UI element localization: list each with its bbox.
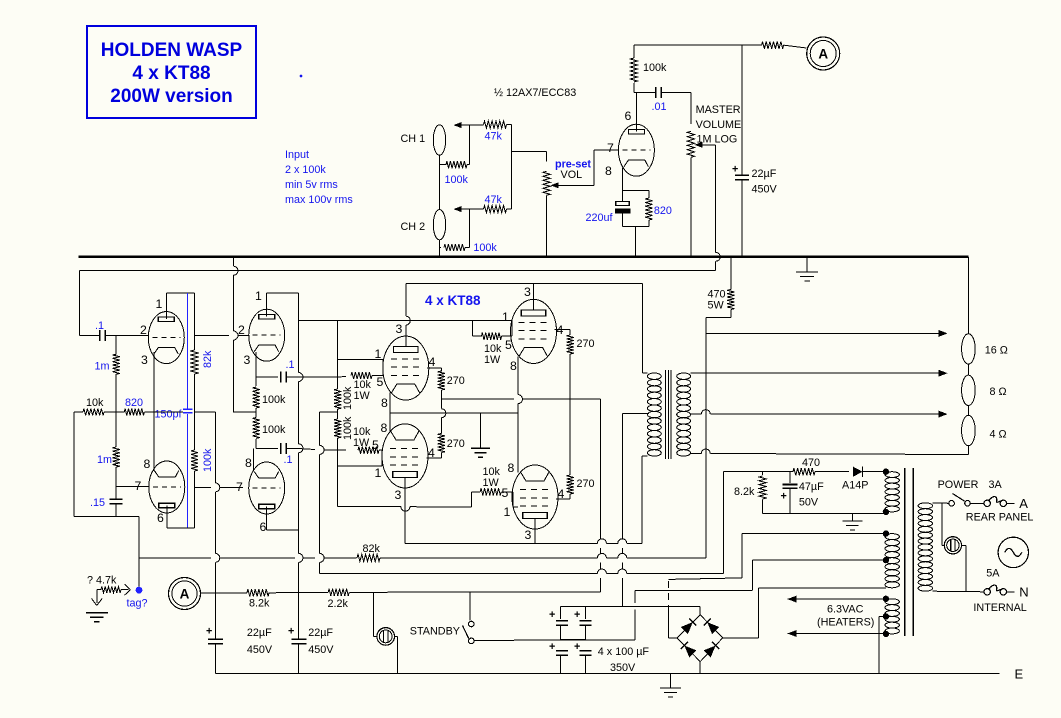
resistor 100k V3 lower bbox=[253, 412, 286, 448]
svg-text:8: 8 bbox=[381, 396, 388, 410]
svg-text:1W: 1W bbox=[354, 390, 371, 402]
wire UR cathode bbox=[518, 357, 523, 414]
wire cap1 lead bbox=[560, 606, 562, 619]
svg-text:350V: 350V bbox=[610, 662, 636, 674]
capacitor 100uF-1b bbox=[549, 641, 568, 674]
wire lamp to bottom bbox=[395, 636, 398, 673]
label 4x100uF bbox=[598, 646, 650, 674]
resistor 270 LL screen bbox=[427, 399, 465, 458]
wire sec top to 8ohm bbox=[691, 372, 944, 374]
dot HT top bbox=[883, 530, 889, 536]
master wiper arrow bbox=[695, 142, 716, 148]
svg-text:+: + bbox=[549, 609, 555, 621]
dot HT center bbox=[883, 557, 889, 563]
earth line bbox=[215, 673, 999, 675]
svg-text:3: 3 bbox=[141, 353, 148, 367]
resistor 470 bias bbox=[793, 457, 849, 475]
resistor 8.2k bias bbox=[734, 472, 766, 514]
svg-text:22µF: 22µF bbox=[247, 627, 272, 639]
ground symbol bias bbox=[842, 513, 862, 530]
wire CH1 junction riser bbox=[468, 125, 470, 165]
svg-text:+: + bbox=[549, 641, 555, 653]
wire LR g3 bbox=[513, 492, 518, 507]
wire V2a plate bbox=[166, 293, 194, 319]
svg-text:tag?: tag? bbox=[127, 598, 148, 610]
wire bridge bottom bbox=[699, 662, 701, 674]
wire 82k to 100k bbox=[194, 374, 196, 450]
PT core bbox=[905, 468, 914, 636]
wire meter to 8.2k bbox=[201, 592, 248, 594]
capacitor .15 bbox=[90, 487, 123, 517]
svg-text:3A: 3A bbox=[989, 479, 1003, 491]
open arrow right bbox=[124, 584, 131, 595]
resistor 1m upper bbox=[95, 336, 120, 413]
pin 2 label bbox=[140, 323, 147, 337]
svg-text:6.3VAC: 6.3VAC bbox=[827, 604, 864, 616]
pin 1 label bbox=[255, 289, 262, 303]
svg-text:8 Ω: 8 Ω bbox=[990, 386, 1007, 398]
pin 6 label bbox=[260, 520, 267, 534]
resistor 8.2k meter bbox=[762, 42, 807, 49]
resistor 10k 1W LR grid bbox=[471, 466, 513, 496]
svg-text:2: 2 bbox=[238, 323, 245, 337]
resistor 10k 1W UR grid bbox=[473, 333, 512, 366]
pin 4 label bbox=[428, 446, 435, 460]
wire CH2 to ground bus bbox=[439, 240, 441, 257]
svg-text:8: 8 bbox=[605, 164, 612, 178]
jack 4 ohm bbox=[962, 415, 1007, 445]
svg-text:47k: 47k bbox=[485, 194, 503, 206]
svg-text:82k: 82k bbox=[363, 543, 381, 555]
wire screen drop bbox=[599, 399, 601, 592]
capacitor 100uF-2b bbox=[574, 641, 591, 674]
svg-text:CH 2: CH 2 bbox=[401, 221, 426, 233]
ground symbol floating bbox=[86, 613, 108, 622]
svg-text:5: 5 bbox=[502, 486, 509, 500]
resistor 82k bbox=[191, 350, 214, 374]
svg-text:+: + bbox=[732, 164, 738, 176]
wire cap mid 2 bbox=[584, 625, 586, 639]
input note text bbox=[285, 149, 353, 206]
wire V2a cathode bbox=[153, 352, 155, 412]
svg-text:270: 270 bbox=[577, 478, 595, 490]
svg-text:.15: .15 bbox=[90, 497, 105, 509]
resistor 47k CH2 bbox=[469, 194, 511, 213]
wire V3a plate bbox=[267, 293, 299, 316]
wire LL g3 feed bbox=[338, 492, 472, 511]
svg-text:450V: 450V bbox=[247, 644, 273, 656]
fuse 3A bbox=[984, 497, 1014, 507]
pin 8 label bbox=[245, 456, 252, 470]
svg-text:270: 270 bbox=[577, 338, 595, 350]
jack CH2 bbox=[401, 210, 446, 240]
screen bus bbox=[441, 398, 600, 400]
triode V3a bbox=[249, 309, 285, 361]
svg-text:INTERNAL: INTERNAL bbox=[973, 602, 1026, 614]
svg-text:4 x KT88: 4 x KT88 bbox=[425, 293, 481, 308]
capacitor 22uF 450V (V1 supply) bbox=[732, 45, 778, 256]
resistor 82k feedback bbox=[357, 543, 706, 562]
svg-text:100k: 100k bbox=[262, 394, 286, 406]
resistor 100k CH2 mix bbox=[440, 242, 498, 254]
resistor 270 LR screen bbox=[556, 399, 595, 499]
svg-text:max 100v rms: max 100v rms bbox=[285, 194, 353, 206]
wire wiper drop bbox=[716, 145, 720, 271]
svg-text:820: 820 bbox=[654, 205, 672, 217]
wire bias ground line bbox=[763, 512, 886, 514]
svg-text:3: 3 bbox=[396, 322, 403, 336]
label 5A bbox=[986, 568, 1000, 580]
wire g3 upper-left bbox=[338, 360, 383, 376]
arrow 4ohm bbox=[939, 411, 948, 418]
svg-text:A: A bbox=[1019, 496, 1028, 511]
label 6.3VAC bbox=[817, 604, 874, 629]
pin 5 label bbox=[505, 338, 512, 352]
pin 8 label bbox=[510, 359, 517, 373]
wire UR g1 feed bbox=[299, 321, 512, 337]
wire lower bus to OPT bbox=[641, 456, 643, 543]
pin 5 label bbox=[372, 438, 379, 452]
wire LL cathode bbox=[389, 413, 391, 431]
svg-text:8: 8 bbox=[144, 457, 151, 471]
title box bbox=[87, 26, 256, 118]
svg-text:5W: 5W bbox=[708, 300, 725, 312]
svg-text:47k: 47k bbox=[485, 131, 503, 143]
pin 8 label bbox=[381, 396, 388, 410]
svg-text:2.2k: 2.2k bbox=[328, 598, 349, 610]
svg-text:4 Ω: 4 Ω bbox=[990, 429, 1007, 441]
svg-text:(HEATERS): (HEATERS) bbox=[817, 617, 874, 629]
cathode bus bbox=[390, 412, 518, 414]
wire CH2 junction riser bbox=[468, 209, 470, 247]
triode V1 (1/2 12AX7) bbox=[618, 124, 654, 176]
wire UL plate bbox=[406, 283, 411, 346]
resistor 270 UR screen bbox=[555, 330, 595, 400]
wire g3 lower-left bbox=[338, 450, 382, 466]
capacitor .1 input bbox=[79, 320, 148, 341]
signal line master to input bbox=[79, 271, 715, 336]
resistor 100k grid leak lower bbox=[334, 416, 354, 440]
open arrow down bbox=[92, 590, 103, 606]
wire LR plate bbox=[534, 519, 536, 544]
stray dot bbox=[300, 75, 303, 78]
label A terminal bbox=[1019, 496, 1028, 511]
pin 3 label bbox=[524, 285, 531, 299]
plate bus upper bbox=[406, 282, 643, 284]
arrow to CH2 tip bbox=[454, 206, 470, 212]
wire B+ node line bbox=[561, 605, 701, 607]
svg-text:.01: .01 bbox=[652, 101, 667, 113]
resistor 10k tail bbox=[74, 397, 116, 416]
triode V3b bbox=[249, 462, 285, 514]
pin 6 label bbox=[157, 511, 164, 525]
svg-text:? 4.7k: ? 4.7k bbox=[87, 575, 117, 587]
bridge rectifier bbox=[677, 615, 723, 662]
resistor 10k 1W LL grid bbox=[353, 426, 382, 454]
svg-text:6: 6 bbox=[260, 520, 267, 534]
meter A top bbox=[807, 37, 840, 70]
pot MASTER VOLUME 1M LOG bbox=[687, 93, 741, 256]
wire leak mid bbox=[337, 409, 339, 419]
resistor 100k V3 upper bbox=[253, 377, 286, 412]
wire left return box bbox=[74, 412, 139, 590]
ground bus bbox=[78, 255, 968, 258]
heater line 1 bbox=[788, 596, 886, 603]
svg-text:3: 3 bbox=[244, 353, 251, 367]
ground symbol on bus bbox=[796, 258, 818, 281]
label tag? bbox=[127, 598, 148, 610]
wire LL plate bbox=[404, 478, 406, 544]
pentode KT88 upper-right bbox=[511, 299, 557, 363]
svg-text:100k: 100k bbox=[262, 424, 286, 436]
wire V3 plate rail bbox=[299, 293, 304, 637]
wire gnd drop to divider mid bbox=[233, 257, 256, 412]
svg-text:CH 1: CH 1 bbox=[401, 133, 426, 145]
svg-text:47µF: 47µF bbox=[799, 481, 824, 493]
resistor 100k grid leak upper bbox=[334, 386, 354, 410]
svg-text:8: 8 bbox=[245, 456, 252, 470]
svg-text:1: 1 bbox=[156, 297, 163, 311]
resistor 100k CH1 mix bbox=[440, 161, 470, 186]
pre-set wiper arrow bbox=[551, 182, 594, 188]
svg-text:100k: 100k bbox=[643, 62, 667, 74]
pin 8 label bbox=[508, 461, 515, 475]
wire V3a cathode bbox=[255, 352, 257, 377]
ground symbol earth bbox=[660, 674, 681, 697]
wire tail node to 150pf bbox=[154, 411, 183, 413]
capacitor 220uf cathode bbox=[586, 168, 630, 227]
pin 1 label bbox=[156, 297, 163, 311]
arrow 8ohm bbox=[939, 370, 948, 377]
svg-text:4: 4 bbox=[429, 355, 436, 369]
resistor 100k divider bbox=[191, 448, 214, 472]
wire B+ tap bbox=[195, 412, 216, 483]
svg-text:.1: .1 bbox=[95, 320, 104, 332]
svg-text:1W: 1W bbox=[353, 437, 370, 449]
pentode KT88 lower-right bbox=[512, 465, 558, 529]
wire lamp drop bbox=[374, 592, 378, 636]
pin 5 label bbox=[377, 375, 384, 389]
resistor ?4.7k bbox=[87, 575, 124, 593]
svg-text:8: 8 bbox=[508, 461, 515, 475]
dot bias top bbox=[883, 469, 889, 475]
arrow 16ohm bbox=[939, 330, 948, 337]
wire standby feed bbox=[474, 590, 752, 640]
svg-text:270: 270 bbox=[447, 375, 465, 387]
svg-text:100k: 100k bbox=[445, 174, 469, 186]
svg-text:A14P: A14P bbox=[842, 480, 868, 492]
resistor 470 5W feedback bbox=[706, 258, 735, 318]
svg-text:N: N bbox=[1019, 585, 1028, 600]
resistor 8.2k supply bbox=[247, 589, 328, 609]
svg-text:.1: .1 bbox=[284, 454, 293, 466]
svg-text:450V: 450V bbox=[752, 184, 778, 196]
svg-text:200W version: 200W version bbox=[110, 86, 233, 107]
meter A bottom bbox=[169, 578, 201, 610]
pin 3 label bbox=[395, 488, 402, 502]
svg-text:1: 1 bbox=[375, 347, 382, 361]
capacitor 22uF-1 bbox=[206, 626, 273, 674]
triode V2a bbox=[148, 312, 184, 364]
pin 3 label bbox=[525, 528, 532, 542]
wire bridge left AC bbox=[668, 579, 677, 638]
PT heater winding bbox=[885, 599, 899, 634]
pin 7 label bbox=[236, 480, 243, 494]
wire bias top bbox=[724, 471, 793, 473]
pin 4 label bbox=[558, 487, 565, 501]
svg-text:E: E bbox=[1015, 667, 1024, 682]
svg-text:50V: 50V bbox=[799, 497, 819, 509]
lamp mains bbox=[944, 537, 961, 554]
svg-text:HOLDEN WASP: HOLDEN WASP bbox=[101, 40, 243, 61]
pin 5 label bbox=[502, 486, 509, 500]
svg-text:2: 2 bbox=[140, 323, 147, 337]
pin 8 label bbox=[381, 421, 388, 435]
wire caps mid link bbox=[561, 639, 586, 641]
feedback riser bbox=[705, 318, 707, 558]
wire cap1 top bbox=[214, 637, 216, 640]
wire lamp tap bbox=[942, 503, 944, 545]
svg-text:1: 1 bbox=[504, 505, 511, 519]
wire V2b cathode bbox=[153, 412, 155, 471]
svg-text:7: 7 bbox=[135, 479, 142, 493]
svg-text:REAR PANEL: REAR PANEL bbox=[966, 512, 1034, 524]
svg-text:+: + bbox=[781, 491, 787, 503]
plate bus lower bbox=[405, 539, 642, 544]
svg-text:100k: 100k bbox=[202, 448, 214, 472]
lamp indicator bbox=[377, 628, 395, 646]
wire plate bus drop to OPT bbox=[641, 283, 643, 373]
wire primary bottom bbox=[932, 590, 984, 593]
wire primary top bbox=[932, 502, 948, 505]
wire 4ohm tap bbox=[691, 410, 944, 415]
wire seesaw to V3 grid7 bbox=[195, 483, 244, 492]
wire UL cathode bbox=[389, 393, 391, 414]
resistor 10k 1W UL grid bbox=[351, 372, 383, 402]
PT HT winding bbox=[885, 534, 899, 588]
fuse 5A bbox=[984, 585, 1014, 595]
wire bus to jacks bbox=[967, 257, 969, 334]
pin 1 label bbox=[375, 347, 382, 361]
svg-text:VOLUME: VOLUME bbox=[696, 119, 742, 131]
wire .1 to KT88 grid line bbox=[294, 376, 346, 379]
svg-text:8.2k: 8.2k bbox=[734, 486, 755, 498]
svg-text:+: + bbox=[206, 626, 212, 638]
see-saw divider line bbox=[194, 293, 196, 350]
wire HT top feed bbox=[668, 534, 886, 580]
jack CH1 bbox=[401, 125, 446, 155]
wire bias feed line bbox=[320, 472, 724, 574]
svg-text:22µF: 22µF bbox=[752, 168, 777, 180]
label INTERNAL bbox=[973, 602, 1026, 614]
wire 22uF2 to line bbox=[298, 637, 300, 640]
wire bridge right AC bbox=[723, 588, 886, 638]
svg-text:3: 3 bbox=[395, 488, 402, 502]
blue 150pf lower line bbox=[187, 414, 189, 528]
wire 16ohm line bbox=[706, 332, 944, 334]
svg-text:3: 3 bbox=[524, 285, 531, 299]
jack 16 ohm bbox=[962, 334, 1008, 364]
svg-text:1m: 1m bbox=[97, 454, 112, 466]
AC source bbox=[998, 537, 1028, 567]
diode A14P bbox=[842, 466, 886, 491]
svg-text:1: 1 bbox=[255, 289, 262, 303]
svg-text:6: 6 bbox=[625, 109, 632, 123]
label 4 x KT88 bbox=[425, 293, 481, 308]
capacitor 47uF 50V bbox=[781, 472, 825, 514]
svg-text:8: 8 bbox=[381, 421, 388, 435]
pin 3 label bbox=[244, 353, 251, 367]
svg-text:6: 6 bbox=[157, 511, 164, 525]
wire V1 plate bbox=[635, 93, 637, 132]
pin 8 label bbox=[605, 164, 612, 178]
wire V3b plate bbox=[267, 507, 299, 531]
capacitor 100uF-1a bbox=[549, 609, 568, 625]
wire lamp to neutral bbox=[962, 545, 966, 592]
resistor 820 tail bbox=[116, 397, 154, 416]
svg-text:100k: 100k bbox=[473, 242, 497, 254]
svg-text:10k: 10k bbox=[86, 397, 104, 409]
OPT secondary winding bbox=[677, 373, 691, 456]
svg-text:+: + bbox=[574, 609, 580, 621]
wire cap2 lead bbox=[584, 606, 586, 619]
arrow to CH1 tip bbox=[454, 122, 470, 128]
wire bridge top bbox=[699, 606, 701, 615]
OPT primary CT bbox=[622, 414, 649, 607]
resistor 100k plate load bbox=[630, 45, 667, 93]
svg-text:+: + bbox=[288, 626, 294, 638]
switch POWER bbox=[949, 494, 984, 507]
triode V2b bbox=[149, 461, 185, 513]
svg-text:5: 5 bbox=[377, 375, 384, 389]
label E bbox=[1015, 667, 1024, 682]
jack 8 ohm bbox=[962, 375, 1007, 405]
pin 7 label bbox=[607, 141, 614, 155]
pin 4 label bbox=[429, 355, 436, 369]
wire 47k summing node bbox=[510, 125, 512, 210]
wire .1 to lower KT88 grid line bbox=[294, 445, 346, 454]
wire heater CT ground bbox=[879, 616, 886, 673]
resistor 2.2k supply bbox=[328, 589, 601, 610]
wire grid2 line bbox=[195, 335, 250, 337]
wire grid V2b bbox=[116, 486, 149, 488]
svg-text:1W: 1W bbox=[483, 477, 500, 489]
wire CH1-CH2 link bbox=[439, 155, 441, 209]
label 1/2 12AX7/ECC83 bbox=[494, 87, 576, 99]
resistor 47k CH1 bbox=[469, 121, 511, 143]
label N terminal bbox=[1019, 585, 1028, 600]
ground symbol cathodes bbox=[471, 413, 490, 457]
pin 1 label bbox=[504, 505, 511, 519]
dot heater bottom bbox=[883, 631, 889, 637]
OPT primary winding bbox=[642, 373, 661, 456]
blue tag dot bbox=[136, 587, 143, 594]
dot bias bottom bbox=[883, 509, 889, 515]
svg-text:STANDBY: STANDBY bbox=[410, 625, 460, 637]
capacitor 100uF-2a bbox=[574, 609, 591, 625]
OPT core bbox=[666, 370, 672, 459]
blue 150pf feedback line bbox=[187, 293, 189, 408]
svg-text:min 5v rms: min 5v rms bbox=[285, 179, 338, 191]
label STANDBY bbox=[410, 625, 460, 637]
switch standby bbox=[463, 592, 475, 644]
wire divider bottom bbox=[194, 471, 196, 528]
svg-text:7: 7 bbox=[607, 141, 614, 155]
wire V2b plate bbox=[167, 506, 195, 529]
svg-text:270: 270 bbox=[447, 438, 465, 450]
resistor 820 cathode bbox=[623, 190, 672, 226]
svg-text:1: 1 bbox=[502, 310, 509, 324]
